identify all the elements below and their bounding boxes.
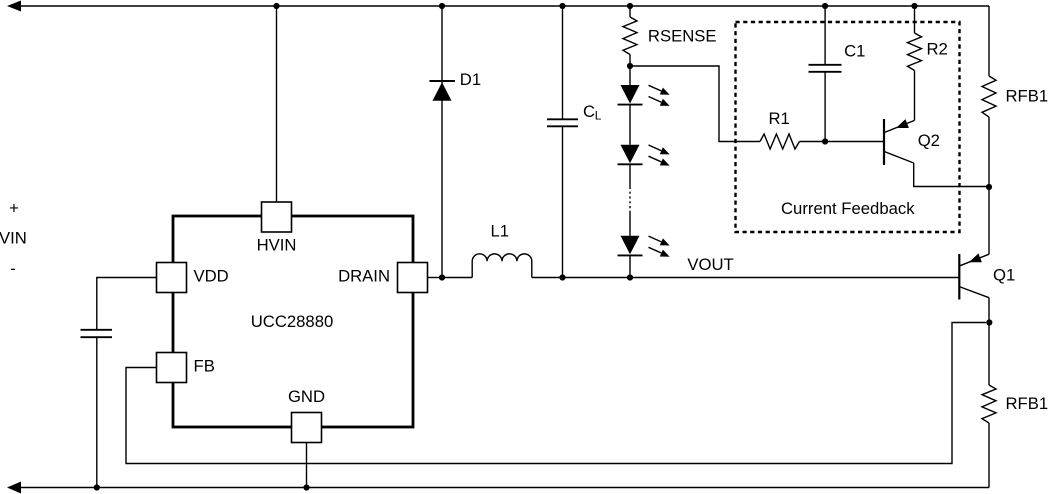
- wire HVIN to top rail: [276, 6, 278, 202]
- capacitor C1: [809, 65, 842, 72]
- wire C1 top branch: [824, 6, 826, 65]
- node Q1 collector: [986, 319, 992, 325]
- wire C1 bottom branch: [824, 72, 826, 142]
- wire FB feedback path: [126, 323, 986, 464]
- arrow bottom rail left end: [7, 482, 21, 494]
- node RSENSE top rail: [627, 3, 633, 9]
- svg-text:Current Feedback: Current Feedback: [781, 199, 915, 218]
- svg-text:VDD: VDD: [194, 266, 229, 285]
- label VOUT: [687, 255, 733, 274]
- svg-text:Q1: Q1: [993, 266, 1015, 285]
- LED D4: [618, 236, 670, 257]
- resistor R1: [760, 134, 800, 149]
- node R2 top rail: [911, 3, 917, 9]
- pin FB box: [157, 353, 187, 383]
- wire right rail lower (node to RFB1): [988, 323, 990, 386]
- label RFB1 upper: [1006, 86, 1049, 105]
- node DRAIN output: [439, 274, 445, 280]
- wire R2 top stub: [914, 6, 916, 33]
- wire RSENSE to LED node: [629, 55, 631, 86]
- label D1: [460, 70, 481, 89]
- label HVIN: [257, 236, 297, 255]
- label UCC28880: [251, 312, 334, 331]
- LED D2: [618, 85, 670, 106]
- label VIN: [0, 229, 27, 248]
- label RSENSE: [648, 27, 717, 46]
- label VDD: [194, 266, 229, 285]
- label RFB1 lower: [1006, 394, 1049, 413]
- svg-text:HVIN: HVIN: [257, 236, 297, 255]
- svg-text:DRAIN: DRAIN: [338, 266, 390, 285]
- pin VDD box: [157, 263, 187, 293]
- svg-text:RFB1: RFB1: [1006, 394, 1049, 413]
- wire bottom rail: [21, 487, 989, 489]
- wire DRAIN node to L1: [442, 277, 472, 279]
- wire DRAIN to node: [428, 277, 443, 279]
- wire dotted continuation of LED string: [629, 187, 631, 213]
- label DRAIN: [338, 266, 390, 285]
- label VIN minus terminal: [10, 259, 16, 278]
- wire LED D3 lower stub: [629, 164, 631, 186]
- label FB: [194, 356, 215, 375]
- svg-text:UCC28880: UCC28880: [251, 312, 334, 331]
- svg-text:L: L: [595, 109, 602, 123]
- wire CL top branch: [562, 6, 564, 119]
- node HVIN top rail: [273, 3, 279, 9]
- inductor L1: [472, 254, 532, 278]
- label CL: [583, 102, 602, 123]
- svg-text:L1: L1: [491, 222, 510, 241]
- wire R2 to Q2 emitter: [914, 71, 916, 121]
- wire LED D2 to D3: [629, 105, 631, 145]
- resistor RFB1 lower: [982, 385, 996, 423]
- svg-text:C: C: [583, 102, 595, 121]
- node GND bottom rail: [303, 484, 309, 490]
- arrow top rail left end: [7, 1, 21, 12]
- svg-text:GND: GND: [288, 387, 325, 406]
- wire diode D1 branch: [441, 6, 443, 278]
- pin DRAIN box: [398, 263, 428, 293]
- wire Q2 collector to right rail: [914, 163, 989, 187]
- label R2: [927, 40, 948, 59]
- node input capacitor bottom rail: [94, 484, 100, 490]
- svg-text:Q2: Q2: [918, 131, 940, 150]
- capacitor CL: [547, 119, 578, 126]
- pin GND box: [292, 413, 322, 443]
- svg-text:D1: D1: [460, 70, 481, 89]
- transistor Q2 (PNP): [884, 119, 915, 165]
- label GND: [288, 387, 325, 406]
- node CL top rail: [559, 3, 565, 9]
- label Q2: [918, 131, 940, 150]
- diode D1 (freewheel, cathode up): [430, 81, 456, 101]
- wire Q1 collector stub: [988, 298, 990, 323]
- svg-text:R1: R1: [769, 109, 790, 128]
- wire RFB1 lower to bottom rail: [988, 423, 990, 488]
- wire R1 to base node: [800, 141, 885, 143]
- label R1: [769, 109, 790, 128]
- label C1: [844, 42, 865, 61]
- resistor RSENSE: [623, 17, 637, 55]
- svg-text:+: +: [9, 199, 19, 218]
- pin HVIN box: [262, 202, 292, 232]
- node D1 top rail: [439, 3, 445, 9]
- label L1: [491, 222, 510, 241]
- resistor R2: [908, 33, 922, 71]
- dashed box Current Feedback: [736, 22, 960, 232]
- node Q2 collector on right rail: [986, 184, 992, 190]
- wire dotted to LED D4: [629, 213, 631, 236]
- wire right rail upper (top rail to RFB1): [988, 6, 990, 76]
- node LED string on VOUT line: [627, 274, 633, 280]
- resistor RFB1 upper: [982, 76, 996, 117]
- transistor Q1 (PNP): [959, 253, 989, 299]
- wire VOUT line (L1 to Q1 base): [532, 277, 960, 279]
- label Q1: [993, 266, 1015, 285]
- wire input capacitor to bottom rail: [96, 337, 98, 487]
- svg-text:RSENSE: RSENSE: [648, 27, 717, 46]
- svg-text:-: -: [10, 259, 16, 278]
- svg-text:R2: R2: [927, 40, 948, 59]
- label Current Feedback: [781, 199, 915, 218]
- capacitor input bypass: [81, 330, 113, 337]
- wire top rail: [21, 5, 989, 7]
- svg-text:VIN: VIN: [0, 229, 27, 248]
- svg-text:FB: FB: [194, 356, 215, 375]
- svg-text:VOUT: VOUT: [687, 255, 733, 274]
- node C1 R1 base junction: [822, 138, 828, 144]
- svg-text:RFB1: RFB1: [1006, 86, 1049, 105]
- label VIN plus terminal: [9, 199, 19, 218]
- wire LED D4 to VOUT line: [629, 256, 631, 278]
- wire VDD to input capacitor: [97, 278, 157, 330]
- wire right rail middle (RFB1 to Q1 emitter): [988, 117, 990, 254]
- svg-text:C1: C1: [844, 42, 865, 61]
- wire RSENSE top stub: [629, 6, 631, 17]
- wire CL bottom branch: [562, 126, 564, 277]
- op-amp U1 UCC28880 body: [173, 216, 413, 427]
- node RSENSE LED junction: [627, 63, 633, 69]
- node CL on VOUT line: [559, 274, 565, 280]
- wire sense node to R1: [630, 66, 760, 142]
- wire GND to bottom rail: [306, 443, 308, 488]
- LED D3: [618, 145, 670, 166]
- node C1 top rail: [822, 3, 828, 9]
